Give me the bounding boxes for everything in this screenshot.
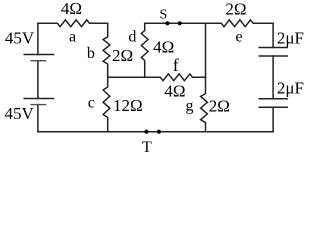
svg-text:f: f bbox=[173, 55, 179, 75]
svg-text:c: c bbox=[88, 94, 95, 111]
svg-text:2Ω: 2Ω bbox=[112, 46, 133, 65]
svg-text:45V: 45V bbox=[5, 29, 35, 48]
svg-text:2μF: 2μF bbox=[277, 78, 304, 97]
svg-text:b: b bbox=[87, 45, 95, 62]
svg-text:4Ω: 4Ω bbox=[164, 82, 185, 101]
svg-text:2Ω: 2Ω bbox=[209, 96, 230, 115]
svg-text:2μF: 2μF bbox=[277, 28, 304, 47]
svg-text:45V: 45V bbox=[5, 104, 35, 123]
svg-text:S: S bbox=[160, 8, 168, 23]
svg-text:T: T bbox=[142, 139, 152, 156]
svg-text:e: e bbox=[235, 29, 242, 46]
svg-text:4Ω: 4Ω bbox=[61, 0, 82, 18]
svg-text:12Ω: 12Ω bbox=[113, 96, 143, 115]
svg-text:2Ω: 2Ω bbox=[225, 0, 246, 19]
svg-text:g: g bbox=[186, 98, 194, 115]
svg-text:a: a bbox=[69, 29, 76, 46]
svg-text:4Ω: 4Ω bbox=[153, 37, 174, 56]
svg-text:d: d bbox=[128, 29, 136, 46]
